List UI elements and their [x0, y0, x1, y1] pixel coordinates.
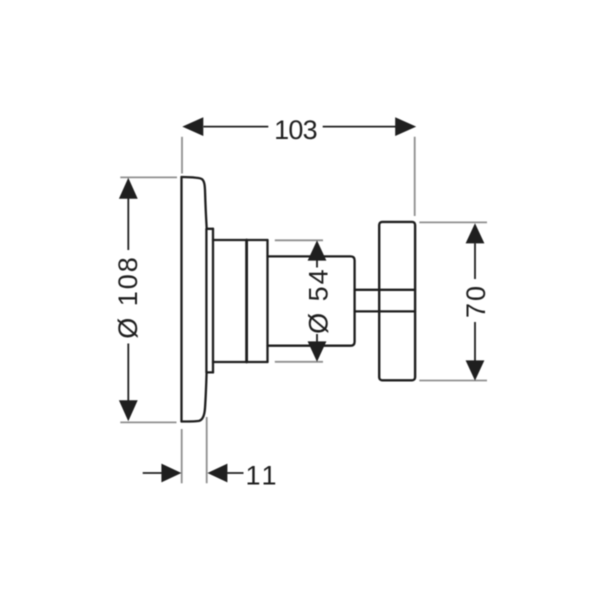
dimension line D54 [316, 260, 318, 341]
extension line 103 left [181, 137, 183, 174]
extension line D54 bottom [275, 361, 323, 363]
arrowhead D54 up [308, 240, 327, 260]
svg-text:70: 70 [461, 284, 491, 318]
dimension line 70 [474, 243, 476, 360]
arrowhead 70 down [466, 360, 485, 380]
extension line D54 top [275, 239, 323, 241]
sleeve joint line [245, 240, 248, 362]
sleeve bottom edge [213, 361, 268, 363]
collar front edge / sleeve left edge [212, 229, 214, 373]
arrowhead 70 up [466, 223, 485, 243]
cylinder body [268, 256, 355, 345]
escutcheon rim top step [207, 228, 213, 230]
arrowhead 103 right [395, 117, 416, 136]
svg-text:Ø 54: Ø 54 [304, 267, 334, 334]
escutcheon lower curve and bottom edge [182, 372, 207, 421]
extension line 11 left [181, 429, 183, 483]
arrowhead 11 right [161, 464, 181, 483]
arrowhead 11 left [207, 464, 227, 483]
handle bar [379, 222, 415, 380]
dimension line D108 [127, 197, 129, 401]
escutcheon top edge and upper curve [182, 177, 207, 229]
sleeve front edge [266, 240, 268, 362]
extension line D108 top [120, 176, 177, 178]
escutcheon rim bottom step [207, 371, 213, 373]
extension line D108 bottom [120, 421, 176, 423]
extension line 11 right [206, 417, 208, 483]
dimension line 11 tails [143, 472, 244, 474]
stem bottom line [355, 310, 415, 312]
svg-text:Ø 108: Ø 108 [113, 255, 143, 339]
svg-text:103: 103 [274, 115, 317, 145]
extension line 70 top [419, 221, 487, 223]
arrowhead D108 down [119, 400, 138, 421]
sleeve top edge [213, 239, 268, 241]
escutcheon rim front face [205, 229, 207, 373]
arrowhead 103 left [182, 117, 203, 136]
dimension line 103 [204, 126, 397, 128]
arrowhead D108 up [119, 178, 138, 199]
extension line 70 bottom [419, 380, 487, 382]
stem top line [355, 289, 415, 291]
extension line 103 right [414, 137, 416, 216]
svg-text:11: 11 [246, 460, 280, 490]
escutcheon back edge [180, 177, 182, 422]
arrowhead D54 down [308, 341, 327, 361]
